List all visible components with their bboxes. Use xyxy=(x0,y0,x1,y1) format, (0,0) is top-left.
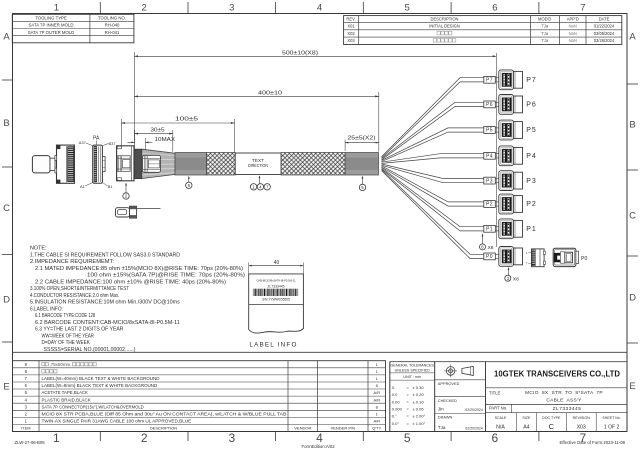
svg-text:± 0.20: ± 0.20 xyxy=(413,392,425,397)
svg-text:SSSSS=SERIAL NO.(00001,00002..: SSSSS=SERIAL NO.(00001,00002......) xyxy=(44,347,136,353)
svg-text:0.: 0. xyxy=(392,385,395,390)
svg-text:P5: P5 xyxy=(526,127,537,134)
svg-text:10MAX: 10MAX xyxy=(155,137,176,143)
svg-text:4: 4 xyxy=(317,3,322,14)
svg-text:P5: P5 xyxy=(486,128,493,134)
dimension 40 label width xyxy=(249,260,304,274)
wire pair P7 xyxy=(382,78,499,158)
svg-text:RH-040: RH-040 xyxy=(105,23,120,28)
dimension 10MAX xyxy=(128,137,176,150)
dimension 25±5(X2) xyxy=(345,136,379,152)
svg-text:6: 6 xyxy=(492,3,497,14)
svg-text:B: B xyxy=(629,120,635,131)
svg-text:C: C xyxy=(629,211,636,222)
BOM table xyxy=(13,361,386,432)
callout 2 MCIO connector xyxy=(123,183,129,200)
dimension 500±10(X8) xyxy=(134,51,496,247)
label PA xyxy=(93,136,100,145)
zone column ticks bottom xyxy=(100,432,539,442)
callout 5 acetate tape left xyxy=(186,176,192,189)
P0 detail side view xyxy=(526,249,545,267)
svg-text:± 0.30: ± 0.30 xyxy=(413,385,425,390)
cable tape section left xyxy=(175,153,207,176)
wire pair P4 xyxy=(382,154,499,164)
svg-text:A/R: A/R xyxy=(373,390,380,395)
cable braid section right xyxy=(281,153,345,176)
connector name P6 xyxy=(526,102,537,109)
svg-text:E: E xyxy=(629,381,635,392)
svg-text:10GTEK TRANSCEIVERS CO.,LTD: 10GTEK TRANSCEIVERS CO.,LTD xyxy=(494,369,620,378)
svg-text:CABLE ASS'Y: CABLE ASS'Y xyxy=(546,397,582,403)
svg-text:D: D xyxy=(3,295,10,306)
label A1 xyxy=(80,183,92,190)
svg-text:DOC TYPE: DOC TYPE xyxy=(542,416,561,420)
zone numbers top xyxy=(54,3,586,14)
MCIO pull tab xyxy=(32,156,55,173)
svg-text:500±10(X8): 500±10(X8) xyxy=(282,51,318,57)
svg-text:VENDOR: VENDOR xyxy=(294,425,311,430)
SATA connector P6 xyxy=(499,95,523,115)
label P0 detail xyxy=(581,256,587,262)
strain relief cone xyxy=(142,149,175,178)
svg-text:5: 5 xyxy=(404,431,411,445)
cable braid section left xyxy=(207,153,236,176)
svg-text:A4: A4 xyxy=(523,425,529,431)
svg-text:SATA 7P INNER MOLD: SATA 7P INNER MOLD xyxy=(29,23,74,28)
svg-text:6.2 BARCODE CONTENT:CAB-MCIO/8: 6.2 BARCODE CONTENT:CAB-MCIO/8xSATA-8I-P… xyxy=(35,320,180,326)
svg-text:D=DAY OF THE WEEK: D=DAY OF THE WEEK xyxy=(42,340,91,346)
wire label P2 xyxy=(484,201,496,208)
svg-text:100±5: 100±5 xyxy=(175,117,198,123)
svg-text:TJa: TJa xyxy=(541,31,549,36)
MCIO connector rear view PA xyxy=(93,145,105,183)
svg-text:6.1 BARCODE TYPE:CODE 128: 6.1 BARCODE TYPE:CODE 128 xyxy=(35,313,95,319)
svg-text:TITLE: TITLE xyxy=(489,391,501,396)
svg-text:TWIN-AX SINGLE PAIR 31AWG CABL: TWIN-AX SINGLE PAIR 31AWG CABLE 100 ohm … xyxy=(42,419,192,424)
svg-text:N/A: N/A xyxy=(496,425,505,431)
svg-text:MCIO 8X STR TO 8*SATA 7P: MCIO 8X STR TO 8*SATA 7P xyxy=(525,390,603,396)
svg-text:02/20/2024: 02/20/2024 xyxy=(465,426,483,430)
svg-text:2.1 MATED IMPEDANCE:85 ohm ±15: 2.1 MATED IMPEDANCE:85 ohm ±15%(MCIO 8X)… xyxy=(35,266,243,272)
P0 detail front view xyxy=(553,248,578,266)
svg-text:400±10: 400±10 xyxy=(258,90,282,96)
svg-text:X8: X8 xyxy=(513,276,519,282)
svg-text:40: 40 xyxy=(274,260,280,266)
wire pair P1 xyxy=(382,168,499,231)
svg-text:INITIAL DESIGN: INITIAL DESIGN xyxy=(429,24,460,29)
svg-text:2.IMPEDANCE REQUIREMEMT:: 2.IMPEDANCE REQUIREMEMT: xyxy=(30,259,114,265)
backshell block xyxy=(134,149,142,178)
svg-text:GENERAL TOLERANCES: GENERAL TOLERANCES xyxy=(391,364,435,368)
svg-text:DESCRIPTION: DESCRIPTION xyxy=(150,425,177,430)
svg-text:RH-041: RH-041 xyxy=(105,30,120,35)
svg-text:TOOLING TYPE: TOOLING TYPE xyxy=(35,16,67,21)
svg-text:0.0: 0.0 xyxy=(392,392,398,397)
caption LABEL INFO xyxy=(249,341,297,348)
svg-text:03/05/2024: 03/05/2024 xyxy=(594,31,615,36)
svg-text:25±5(X2): 25±5(X2) xyxy=(348,136,376,142)
svg-text:C: C xyxy=(549,422,555,431)
svg-text:± 2.00°: ± 2.00° xyxy=(413,414,426,419)
svg-text:ZLW-27-06-B05: ZLW-27-06-B05 xyxy=(15,440,46,445)
svg-text:X03: X03 xyxy=(347,38,355,43)
dimension 400±10 xyxy=(134,90,378,151)
svg-text:MOD'D: MOD'D xyxy=(538,17,551,22)
connector name P5 xyxy=(526,127,537,134)
wire label P1 xyxy=(484,225,496,232)
svg-text:LABEL(W=40mm) BLACK TEXT & WHI: LABEL(W=40mm) BLACK TEXT & WHITE BACKGRO… xyxy=(42,376,160,381)
svg-text:TJa: TJa xyxy=(438,425,446,430)
wire pair P5 xyxy=(382,128,499,162)
svg-text:SIZE: SIZE xyxy=(522,416,531,420)
wire pair P3 xyxy=(382,164,499,183)
svg-text:DRAWN: DRAWN xyxy=(438,415,453,420)
wire pair P0 xyxy=(382,169,499,258)
svg-text:FormEdition:A/02: FormEdition:A/02 xyxy=(302,444,336,449)
svg-text:A1: A1 xyxy=(80,184,86,189)
wire label P4 xyxy=(484,152,496,159)
svg-text:Q'TY: Q'TY xyxy=(372,425,381,430)
zone column ticks top xyxy=(100,2,539,14)
zone numbers bottom xyxy=(53,431,587,445)
connector name P3 xyxy=(526,178,537,185)
wire label P7 xyxy=(484,76,496,83)
svg-text:B1: B1 xyxy=(108,184,114,189)
svg-text:X01: X01 xyxy=(347,24,355,29)
zone row ticks right xyxy=(627,84,638,343)
svg-text:P7: P7 xyxy=(486,78,493,84)
svg-text:X03: X03 xyxy=(577,425,586,431)
svg-text:NaN: NaN xyxy=(569,24,577,29)
text direction label on cable xyxy=(235,153,281,175)
svg-text:A: A xyxy=(629,32,636,43)
SATA connector P1 xyxy=(499,219,523,239)
svg-text:UNLESS SPECIFIED: UNLESS SPECIFIED xyxy=(395,369,431,373)
MCIO connector side view xyxy=(117,146,134,181)
drawing number ZLW-27-06-B05 xyxy=(15,440,46,445)
svg-text:TJa: TJa xyxy=(541,38,549,43)
svg-text:ITEM: ITEM xyxy=(21,425,31,430)
svg-text:SCALE: SCALE xyxy=(495,416,507,420)
svg-text:0.°: 0.° xyxy=(392,414,397,419)
svg-text:P3: P3 xyxy=(526,178,537,185)
svg-text:Jin: Jin xyxy=(438,406,444,411)
svg-text:UNIT : mm: UNIT : mm xyxy=(403,375,421,379)
MCIO connector top view with latch xyxy=(116,206,161,218)
revision table xyxy=(344,16,622,45)
dimension 30±5 xyxy=(135,128,173,152)
wire label P6 xyxy=(484,101,496,108)
svg-text:1: 1 xyxy=(53,431,60,445)
svg-text:P4: P4 xyxy=(486,154,493,160)
callout 5 acetate tape right xyxy=(359,176,365,191)
svg-text:6: 6 xyxy=(492,431,499,445)
svg-text:P4: P4 xyxy=(526,153,537,160)
svg-text:0.0°: 0.0° xyxy=(392,421,400,426)
svg-text:X8: X8 xyxy=(488,245,494,251)
SATA connector P7 xyxy=(499,70,523,90)
svg-text:NaN: NaN xyxy=(569,38,577,43)
label B37 xyxy=(103,141,117,146)
wire pair P2 xyxy=(382,166,499,206)
svg-text:NOTE:: NOTE: xyxy=(30,246,47,252)
SATA connector P2 xyxy=(499,194,523,214)
svg-text:± 0.10: ± 0.10 xyxy=(413,399,425,404)
svg-text:02/20/2024: 02/20/2024 xyxy=(465,408,483,412)
svg-text:3: 3 xyxy=(229,3,234,14)
svg-text:A37: A37 xyxy=(79,140,87,145)
connector name P2 xyxy=(526,201,537,208)
svg-text:2.2 CABLE IMPEDANCE:100 ohm ±1: 2.2 CABLE IMPEDANCE:100 ohm ±10% @RISE T… xyxy=(35,279,226,285)
svg-text:0.00: 0.00 xyxy=(392,399,401,404)
form edition xyxy=(302,444,336,449)
label A37 xyxy=(79,140,93,145)
svg-text:D: D xyxy=(629,293,636,304)
svg-text:LABEL INFO: LABEL INFO xyxy=(249,341,297,348)
svg-text:100 ohm ±15%(SATA 7P)@RISE TIM: 100 ohm ±15%(SATA 7P)@RISE TIME: 70ps (2… xyxy=(87,273,245,279)
svg-text:SHEET No.: SHEET No. xyxy=(602,416,621,420)
svg-text:P1: P1 xyxy=(486,227,493,233)
svg-text:E: E xyxy=(3,382,9,393)
SATA connector P5 xyxy=(499,120,523,140)
svg-text:PLASTIC BRAID,BLACK: PLASTIC BRAID,BLACK xyxy=(42,397,91,402)
svg-text:2: 2 xyxy=(142,3,147,14)
tooling table xyxy=(12,14,134,43)
svg-text:P6: P6 xyxy=(526,102,537,109)
svg-text:ZL7333445: ZL7333445 xyxy=(553,406,582,412)
svg-text:MCIO 8X STR PCBA,BLUE (Diff 85: MCIO 8X STR PCBA,BLUE (Diff 85 Ohm and 3… xyxy=(42,411,287,416)
connector name P4 xyxy=(526,153,537,160)
svg-text:5: 5 xyxy=(405,3,410,14)
svg-text:5.INSULATION RESISTANCE:10M oh: 5.INSULATION RESISTANCE:10M ohm Min./300… xyxy=(30,300,180,306)
svg-text:S/N:YYWWD55555: S/N:YYWWD55555 xyxy=(262,297,290,301)
svg-text:TOOLING NO.: TOOLING NO. xyxy=(98,16,126,21)
svg-text:VENDER P/N: VENDER P/N xyxy=(331,425,356,430)
svg-text:P2: P2 xyxy=(526,201,537,208)
callout 6 X8 wire labels xyxy=(480,233,494,251)
svg-text:P7: P7 xyxy=(526,77,537,84)
label B1 xyxy=(103,183,113,190)
svg-text:X02: X02 xyxy=(347,31,355,36)
svg-text:6.LABEL INFO:: 6.LABEL INFO: xyxy=(30,306,63,312)
svg-text:P0: P0 xyxy=(581,256,587,262)
SATA connector P0 xyxy=(499,247,523,267)
svg-text:A: A xyxy=(3,32,10,43)
svg-text:REVISION: REVISION xyxy=(573,416,591,420)
svg-text:B: B xyxy=(3,118,9,129)
svg-text:± 1.00°: ± 1.00° xyxy=(413,421,426,426)
SATA connector P3 xyxy=(499,171,523,191)
svg-text:A/R: A/R xyxy=(373,397,380,402)
svg-text:1 OF 2: 1 OF 2 xyxy=(604,424,620,430)
svg-text:3.100% OPEN,SHORT&INTERMITTANC: 3.100% OPEN,SHORT&INTERMITTANCE TEST xyxy=(30,286,129,292)
wire label P0 xyxy=(484,253,496,260)
svg-text:P6: P6 xyxy=(486,102,493,108)
svg-text:CHECKED: CHECKED xyxy=(438,398,457,403)
wire pair P6 xyxy=(382,102,499,160)
connector name P7 xyxy=(526,77,537,84)
svg-text:APPROVED: APPROVED xyxy=(438,381,460,386)
zone letters left xyxy=(3,32,10,393)
svg-text:1: 1 xyxy=(54,3,59,14)
svg-text:1.THE CABLE SI REQUIREMENT FOL: 1.THE CABLE SI REQUIREMENT FOLLOW SAS3.0… xyxy=(30,252,180,258)
notes text block xyxy=(30,246,245,353)
svg-text:0.000: 0.000 xyxy=(392,407,403,412)
cable tape section right xyxy=(345,153,378,176)
svg-text:REV.: REV. xyxy=(346,17,355,22)
svg-text:30±5: 30±5 xyxy=(151,128,165,134)
svg-text:C: C xyxy=(3,203,10,214)
svg-text:SATA 7P CONNECTOR(15u"),W/LATC: SATA 7P CONNECTOR(15u"),W/LATCH&OVERMOLD xyxy=(42,404,144,409)
svg-text:A/R: A/R xyxy=(373,419,380,424)
svg-text:2: 2 xyxy=(141,431,148,445)
svg-text:SATA 7P OUTER MOLD: SATA 7P OUTER MOLD xyxy=(28,30,75,35)
zone row ticks left xyxy=(2,80,13,342)
general tolerances box xyxy=(390,362,435,432)
svg-text:Effective Date of Form:2023-11: Effective Date of Form:2023-11-08 xyxy=(559,440,625,445)
label info example xyxy=(249,274,304,333)
svg-text:DESCRIPTION: DESCRIPTION xyxy=(431,17,459,22)
svg-text:P3: P3 xyxy=(486,178,493,184)
svg-text:03/26/2024: 03/26/2024 xyxy=(594,38,615,43)
connector name P1 xyxy=(526,226,537,233)
svg-text:01/22/2024: 01/22/2024 xyxy=(594,24,615,29)
svg-text:4.CONDUCTOR RESISTANCE:2.0 ohm: 4.CONDUCTOR RESISTANCE:2.0 ohm Max. xyxy=(30,293,119,299)
svg-text:DIRECTION: DIRECTION xyxy=(248,163,268,168)
SATA connector P4 xyxy=(499,146,523,166)
svg-text:APP'D: APP'D xyxy=(567,17,579,22)
callout 3 X8 SATA connectors xyxy=(505,267,519,282)
svg-text:ACETATE TAPE,BLACK: ACETATE TAPE,BLACK xyxy=(42,390,89,395)
svg-text:PART No.: PART No. xyxy=(489,406,507,411)
svg-text:P0: P0 xyxy=(486,254,493,260)
svg-text:6.3 YY=THE LAST 2 DIGITS OF YE: 6.3 YY=THE LAST 2 DIGITS OF YEAR xyxy=(35,327,124,333)
dimension 100±5 xyxy=(121,117,234,153)
svg-text:CAB-MCIO/8xSATA-8I-P0.5M-11: CAB-MCIO/8xSATA-8I-P0.5M-11 xyxy=(256,279,296,283)
projection symbol and approvals box xyxy=(435,362,486,432)
svg-text:3: 3 xyxy=(228,431,235,445)
svg-text:NaN: NaN xyxy=(569,31,577,36)
zone letters right xyxy=(629,32,636,393)
svg-text:B37: B37 xyxy=(109,141,117,146)
MCIO PCBA front view xyxy=(55,145,75,183)
svg-text:LABEL(W=8mm) BLACK TEXT & WHIT: LABEL(W=8mm) BLACK TEXT & WHITE BACKGROU… xyxy=(42,383,158,388)
svg-text:TJa: TJa xyxy=(541,24,549,29)
svg-text:DATE: DATE xyxy=(599,17,610,22)
effective date xyxy=(559,440,625,445)
svg-text:P1: P1 xyxy=(526,226,537,233)
callout 1 4 7 cable braid label xyxy=(250,175,270,190)
title block main xyxy=(486,362,628,432)
svg-text:7: 7 xyxy=(580,3,585,14)
wire label P3 xyxy=(484,177,496,184)
svg-text:WW=WEEK OF THE YEAR: WW=WEEK OF THE YEAR xyxy=(42,333,95,339)
svg-text:ZL7333445: ZL7333445 xyxy=(267,285,284,289)
svg-text:± 0.05: ± 0.05 xyxy=(413,407,425,412)
svg-text:P2: P2 xyxy=(486,202,493,208)
wire label P5 xyxy=(484,127,496,134)
svg-text:,75x50mm,: ,75x50mm, xyxy=(50,362,72,367)
